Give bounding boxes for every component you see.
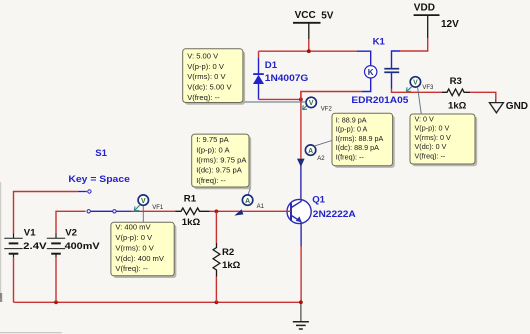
- contact top lead: [392, 51, 401, 69]
- svg-text:V: V: [413, 80, 418, 87]
- wire R1 to Q1 base: [210, 210, 292, 212]
- wire V1 top to switch throw: [14, 192, 78, 234]
- coil bottom lead: [362, 78, 371, 92]
- svg-text:V: 5.00 V: V: 5.00 V: [187, 52, 219, 61]
- leader VF2 to readout: [243, 101, 306, 103]
- ground (earth) under Q1: [293, 302, 309, 329]
- svg-text:V(dc): 0 V: V(dc): 0 V: [415, 142, 447, 151]
- resistor R1 1k: [176, 194, 210, 229]
- ground GND (signal): [489, 99, 528, 113]
- svg-text:D1: D1: [265, 60, 278, 71]
- svg-text:V(freq): --: V(freq): --: [115, 264, 148, 273]
- svg-text:V: 400 mV: V: 400 mV: [115, 223, 151, 232]
- svg-text:1kΩ: 1kΩ: [222, 260, 241, 271]
- bottom bus wire: [14, 301, 301, 303]
- svg-text:V(rms): 0 V: V(rms): 0 V: [115, 243, 154, 252]
- wire top rail VCC to D1/relay: [259, 50, 358, 52]
- wire switch to R1: [131, 210, 176, 212]
- svg-text:A: A: [245, 198, 250, 205]
- svg-text:R2: R2: [222, 247, 234, 258]
- svg-text:A1: A1: [257, 204, 265, 210]
- battery V1 2.4V: [4, 227, 47, 257]
- wire V2 top to switch pole: [56, 211, 86, 233]
- svg-text:V(rms): 0 V: V(rms): 0 V: [187, 72, 226, 81]
- leader A2 to readout: [314, 141, 332, 147]
- relay K1 EDR201A05: [351, 36, 409, 106]
- wire coil bottom to collector node: [301, 92, 362, 100]
- probe readout VF1 (V: 400 mV): [111, 222, 176, 278]
- wire A2 to Q1 collector (pin): [300, 166, 302, 200]
- probe VF3: [406, 77, 434, 92]
- svg-text:S1: S1: [95, 148, 107, 159]
- svg-text:I: 88.9 pA: I: 88.9 pA: [336, 115, 367, 124]
- probe readout VF2 (V: 5.00 V): [183, 49, 245, 105]
- svg-text:I(dc): 88.9 pA: I(dc): 88.9 pA: [336, 143, 379, 152]
- wire relay contact to R3: [392, 89, 443, 93]
- svg-text:I(rms): 9.75 pA: I(rms): 9.75 pA: [196, 156, 247, 165]
- junction bottom bus: [54, 300, 58, 304]
- svg-text:I(rms): 88.9 pA: I(rms): 88.9 pA: [336, 134, 384, 143]
- probe readout A2 (I: 88.9 pA): [332, 113, 395, 168]
- svg-text:1N4007G: 1N4007G: [265, 73, 309, 84]
- wire V2 bottom: [55, 257, 57, 302]
- wire R2 top: [215, 211, 217, 243]
- probe readout VF3 (V: 0 V): [410, 114, 477, 166]
- svg-text:R1: R1: [184, 194, 197, 205]
- svg-text:5V: 5V: [321, 10, 334, 21]
- coil top lead: [357, 51, 371, 65]
- svg-text:I(p-p): 0 A: I(p-p): 0 A: [196, 145, 230, 154]
- svg-text:V(dc): 5.00 V: V(dc): 5.00 V: [187, 83, 232, 92]
- svg-text:EDR201A05: EDR201A05: [351, 95, 409, 106]
- svg-text:12V: 12V: [441, 19, 459, 30]
- contact plates: [384, 68, 399, 70]
- svg-text:V(rms): 0 V: V(rms): 0 V: [415, 133, 452, 142]
- svg-text:I(dc): 9.75 pA: I(dc): 9.75 pA: [196, 166, 243, 175]
- svg-text:A: A: [308, 148, 313, 155]
- svg-text:R3: R3: [450, 76, 462, 87]
- svg-text:400mV: 400mV: [65, 241, 101, 252]
- resistor R2 1k: [213, 243, 241, 277]
- svg-text:VF3: VF3: [422, 85, 434, 91]
- current probe A2: [297, 145, 325, 167]
- power rail VDD 12V: [414, 3, 460, 38]
- junction VCC rail: [307, 49, 311, 53]
- probe readout A1 (I: 9.75 pA): [192, 134, 252, 189]
- wire VDD stem to relay contact: [400, 38, 428, 51]
- svg-text:VCC: VCC: [295, 10, 316, 21]
- svg-text:A2: A2: [317, 156, 325, 162]
- probe VF2: [303, 97, 333, 112]
- junction diode / collector node: [299, 98, 303, 102]
- svg-text:V(dc): 400 mV: V(dc): 400 mV: [115, 254, 164, 263]
- edge artifact left: [0, 182, 1, 298]
- leader VF3 to readout: [418, 87, 422, 114]
- svg-text:V(p-p): 0 V: V(p-p): 0 V: [415, 124, 450, 133]
- svg-text:I(freq): --: I(freq): --: [336, 153, 365, 162]
- svg-text:I(p-p): 0 A: I(p-p): 0 A: [336, 125, 368, 134]
- svg-text:Q1: Q1: [312, 194, 325, 205]
- svg-text:V2: V2: [65, 227, 77, 238]
- wire VCC stem lower: [308, 39, 310, 51]
- resistor R3 1k: [442, 76, 470, 112]
- svg-text:V: V: [141, 198, 146, 205]
- wire R3 to GND: [470, 92, 496, 99]
- svg-text:1kΩ: 1kΩ: [448, 101, 467, 112]
- wire diode bottom to collector node: [259, 98, 301, 100]
- svg-text:2N2222A: 2N2222A: [313, 209, 356, 220]
- svg-text:V(freq): --: V(freq): --: [187, 93, 220, 102]
- wire Q1 emitter down: [300, 246, 302, 302]
- svg-text:K1: K1: [373, 36, 386, 47]
- coil circle K: [365, 66, 377, 78]
- svg-text:VF2: VF2: [321, 106, 333, 112]
- wire R2 bottom: [215, 277, 217, 303]
- svg-text:GND: GND: [506, 101, 528, 112]
- svg-text:VF1: VF1: [152, 205, 164, 211]
- svg-text:1kΩ: 1kΩ: [182, 217, 201, 228]
- junction R1/R2 node: [215, 210, 219, 214]
- wire V1 bottom: [13, 257, 15, 302]
- svg-text:I(freq): --: I(freq): --: [196, 176, 226, 185]
- svg-text:I: 9.75 pA: I: 9.75 pA: [196, 135, 229, 144]
- battery V2 400mV: [47, 227, 100, 257]
- wire collector node down to A2: [300, 92, 302, 159]
- probe VF1: [134, 195, 164, 223]
- power rail VCC 5V: [293, 10, 334, 39]
- svg-text:V1: V1: [24, 227, 36, 238]
- svg-text:V: 0 V: V: 0 V: [415, 114, 435, 123]
- svg-text:V(p-p): 0 V: V(p-p): 0 V: [115, 233, 153, 242]
- svg-text:V(p-p): 0 V: V(p-p): 0 V: [187, 62, 225, 71]
- svg-text:Key = Space: Key = Space: [68, 174, 129, 185]
- svg-text:V(freq): --: V(freq): --: [415, 152, 446, 161]
- current probe A1: [234, 187, 264, 215]
- diode D1 1N4007G: [253, 51, 308, 99]
- switch S1: [68, 148, 131, 213]
- svg-text:VDD: VDD: [414, 3, 435, 14]
- svg-text:V: V: [309, 100, 314, 107]
- contact bottom lead: [391, 72, 393, 88]
- transistor Q1 2N2222A: [287, 194, 356, 246]
- svg-text:2.4V: 2.4V: [23, 241, 47, 252]
- svg-text:K: K: [368, 68, 374, 77]
